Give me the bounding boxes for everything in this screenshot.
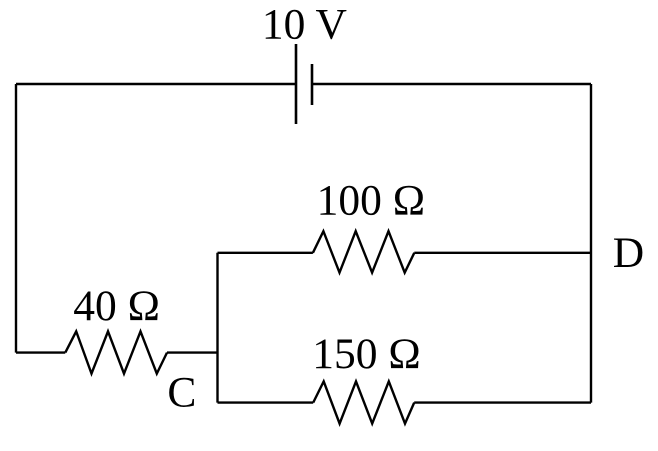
- battery 10 V: long plate (positive): [295, 44, 298, 124]
- battery 10 V: short plate (negative): [311, 64, 314, 105]
- wire bottom-left (left rail to resistor 40): [16, 351, 65, 353]
- wire top-left segment (left rail to battery): [16, 83, 296, 85]
- wire right rail (top wire down to node D and bottom wire): [590, 84, 592, 403]
- wire lower branch left (node C rail to resistor 150): [218, 401, 314, 403]
- wire resistor 40 to node C: [167, 351, 218, 353]
- wire left rail: [15, 84, 17, 353]
- svg-text:100 Ω: 100 Ω: [317, 177, 425, 225]
- wire upper branch right (resistor 100 to node D): [414, 252, 591, 254]
- resistor R2 100 ohm (zigzag): [313, 231, 414, 272]
- resistor R1 40 ohm (zigzag): [65, 331, 167, 373]
- wire upper branch left (node C rail to resistor 100): [218, 252, 313, 254]
- svg-text:150 Ω: 150 Ω: [312, 330, 420, 378]
- svg-text:40 Ω: 40 Ω: [73, 282, 160, 330]
- wire middle vertical (node C rail joining both branches): [216, 253, 218, 403]
- wire lower branch right (resistor 150 to right rail): [414, 401, 591, 403]
- svg-text:C: C: [167, 368, 196, 416]
- svg-text:10 V: 10 V: [262, 0, 347, 48]
- resistor R3 150 ohm (zigzag): [313, 381, 414, 423]
- svg-text:D: D: [613, 229, 644, 277]
- wire top-right segment (battery to right rail): [312, 83, 591, 85]
